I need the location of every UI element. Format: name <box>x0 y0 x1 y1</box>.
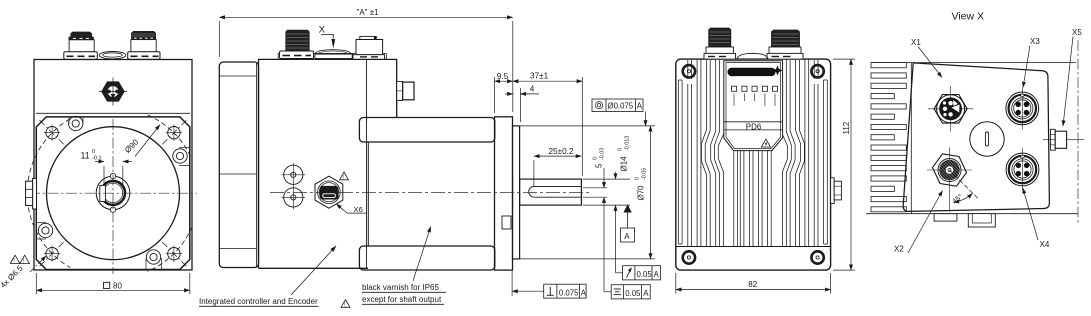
body housing front <box>34 60 192 271</box>
dim d14 <box>616 136 631 273</box>
symmetry frame <box>604 285 650 299</box>
motor bottom rail <box>359 246 494 270</box>
X6 warning triangle <box>340 172 349 181</box>
hex screw top center <box>99 78 127 106</box>
ext line d70 top <box>520 125 655 127</box>
corner hole TL <box>44 125 60 141</box>
svg-text:"A" ±1: "A" ±1 <box>357 8 380 17</box>
svg-text:A: A <box>624 232 630 241</box>
label integrated controller <box>199 246 336 306</box>
svg-text:0.05: 0.05 <box>637 270 653 279</box>
dim square 80 <box>36 273 190 294</box>
svg-text:black varnish for IP65: black varnish for IP65 <box>362 283 439 292</box>
top mounting strip <box>278 53 386 59</box>
svg-text:!: ! <box>344 303 345 309</box>
svg-text:Ø70: Ø70 <box>637 185 646 201</box>
svg-text:-0.05: -0.05 <box>642 168 648 180</box>
label X3 <box>1023 37 1040 88</box>
svg-text:except for shaft output: except for shaft output <box>362 295 442 304</box>
svg-text:X2: X2 <box>894 245 904 254</box>
warning triangle with bolt <box>761 139 770 147</box>
X2 connector (female knurled) <box>927 148 972 213</box>
svg-text:X1: X1 <box>911 38 921 47</box>
step line body/flange <box>36 112 190 114</box>
shaft <box>520 179 582 205</box>
bottom tabs <box>934 214 995 227</box>
motor top rail <box>359 118 494 143</box>
svg-text:View X: View X <box>952 11 985 23</box>
top envelope line <box>871 62 1076 64</box>
dim 37 <box>513 72 583 176</box>
svg-text:Integrated controller and Enco: Integrated controller and Encoder <box>199 297 318 306</box>
rear body <box>676 59 831 270</box>
svg-text:4: 4 <box>530 84 535 93</box>
connector knurled (side view) <box>280 30 314 58</box>
dim 112 <box>833 59 855 270</box>
view X arrow and label <box>319 25 336 49</box>
PD6 band <box>724 121 783 123</box>
perpendicularity frame <box>512 271 587 298</box>
fins under panel <box>734 151 771 247</box>
label X1 <box>911 38 942 78</box>
fins right of panel <box>782 59 818 246</box>
centerlines front <box>29 119 197 274</box>
connector 2 (side view) <box>353 36 385 59</box>
center plug <box>970 122 1004 156</box>
svg-text:-0.1: -0.1 <box>92 156 102 162</box>
ext line d70 bottom <box>520 258 655 260</box>
bolt circle arcs (dashed) <box>27 115 192 272</box>
X3 connector (4pin female) <box>1006 88 1039 130</box>
label panel <box>724 61 783 151</box>
dim 9.5 <box>495 72 513 113</box>
ext lines shaft <box>583 179 630 205</box>
connector M12 right (front view, knurled) <box>128 31 160 59</box>
label d90 <box>123 125 160 157</box>
label 4x d6.5 with leader <box>0 256 46 290</box>
svg-text:112: 112 <box>842 121 851 134</box>
rear connector left <box>704 28 736 59</box>
svg-text:0: 0 <box>635 177 641 180</box>
flange square with chamfers <box>36 117 190 270</box>
svg-text:A: A <box>654 270 660 279</box>
centerline side view <box>270 191 591 193</box>
heatsink fins comb <box>871 63 911 214</box>
right side bump <box>831 178 842 204</box>
svg-text:5: 5 <box>595 163 604 168</box>
X4 connector (4pin female) <box>1006 148 1039 190</box>
X6 connector hex <box>315 176 343 208</box>
left border slots <box>678 80 682 244</box>
connector face plate <box>903 63 1049 212</box>
svg-text:-0.013: -0.013 <box>625 136 631 151</box>
svg-text:37±1: 37±1 <box>530 72 549 81</box>
rear connector right <box>767 30 803 59</box>
pilot spigot d70 <box>513 126 520 259</box>
dim 25 <box>534 147 582 186</box>
dome cap (side view) <box>315 50 351 54</box>
svg-text:25±0.2: 25±0.2 <box>549 147 574 156</box>
front flange plate <box>495 117 513 270</box>
X5 bump (side view) <box>397 81 414 100</box>
svg-text:A: A <box>637 101 643 110</box>
screw S3 <box>36 223 52 240</box>
svg-text:X5: X5 <box>1072 28 1082 37</box>
corner hole diagonals (dash-dot) <box>40 120 187 266</box>
X6 label leader <box>336 204 367 214</box>
controller housing <box>259 59 397 268</box>
corner screws <box>683 65 824 264</box>
connector M12 left (front view) <box>64 32 98 59</box>
svg-text:!: ! <box>343 175 344 181</box>
datum A <box>621 205 635 242</box>
dim 82 <box>676 273 831 294</box>
dome between rear connectors <box>737 53 768 59</box>
svg-text:X4: X4 <box>1040 240 1050 249</box>
dome cap between connectors <box>99 52 126 59</box>
rear heatsink cap <box>219 62 258 268</box>
svg-text:A: A <box>581 288 587 297</box>
X5 connector on left edge (front view) <box>26 178 37 209</box>
svg-text:0: 0 <box>593 157 599 160</box>
motor mid body edges <box>367 142 369 246</box>
corner hole TR <box>166 125 182 141</box>
label black varnish <box>341 227 446 309</box>
dim A overall <box>219 8 513 112</box>
dim 11 <box>81 149 133 188</box>
LED labels vertical <box>734 94 775 107</box>
screw S1 <box>69 116 84 130</box>
svg-text:Ø14: Ø14 <box>620 156 629 172</box>
warning triangles pair <box>10 255 29 264</box>
bottom band line <box>676 246 831 248</box>
LEDs <box>732 86 778 91</box>
svg-text:0: 0 <box>92 149 95 155</box>
svg-text:X3: X3 <box>1030 37 1040 46</box>
svg-text:9.5: 9.5 <box>497 72 509 81</box>
dim d70 vertical <box>635 126 651 259</box>
svg-text:82: 82 <box>748 280 757 289</box>
X6 screws <box>282 163 306 209</box>
label X4 <box>1023 188 1050 249</box>
nanotec logo bar <box>728 68 776 76</box>
runout frame <box>616 266 661 280</box>
dim 4 <box>505 84 539 122</box>
fins left of panel <box>688 59 724 246</box>
bottom envelope line <box>866 213 1078 215</box>
svg-text:PD6: PD6 <box>746 122 762 131</box>
svg-text:X6: X6 <box>354 205 363 214</box>
right border slots <box>824 80 828 244</box>
screw S2 <box>173 148 190 166</box>
45 deg dimension <box>950 170 979 206</box>
X5 connector side <box>1043 129 1084 150</box>
corner hole BL <box>44 246 60 262</box>
svg-text:-0.03: -0.03 <box>600 148 606 160</box>
vertical dash-dot right <box>1077 40 1079 225</box>
shaft flat (stadium) <box>529 186 582 197</box>
svg-text:Ø0.075: Ø0.075 <box>608 101 634 110</box>
concentricity leader <box>645 112 647 126</box>
svg-text:A: A <box>643 289 649 298</box>
dim 5 flat <box>593 148 606 292</box>
svg-text:11: 11 <box>81 151 90 161</box>
svg-text:0.05: 0.05 <box>625 289 641 298</box>
concentricity frame <box>592 99 643 112</box>
svg-text:X: X <box>319 25 326 36</box>
pilot circle d70 <box>47 127 180 260</box>
X1 connector (male) <box>928 86 973 132</box>
label X2 <box>894 191 943 254</box>
screw S4 <box>146 250 162 270</box>
corner hole BR <box>166 246 182 262</box>
svg-text:0.075: 0.075 <box>559 288 579 297</box>
svg-text:0: 0 <box>618 148 624 151</box>
svg-text:80: 80 <box>113 282 122 291</box>
label X5 <box>1063 28 1082 126</box>
center shaft boss <box>96 173 130 212</box>
